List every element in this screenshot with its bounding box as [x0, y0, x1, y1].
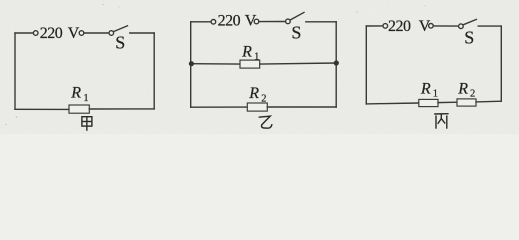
wire top-left segment: [15, 32, 33, 34]
svg-text:220 V: 220 V: [40, 25, 80, 42]
switch S blade: [290, 12, 304, 20]
wire left side: [190, 22, 192, 107]
junction dot right: [334, 60, 339, 65]
wire middle branch right: [260, 63, 337, 64]
character 丙: [434, 114, 448, 129]
svg-text:2: 2: [470, 89, 475, 100]
switch S pivot: [109, 31, 114, 36]
character 甲: [82, 117, 92, 131]
wire terminal to switch: [84, 32, 109, 34]
terminal circle left: [33, 31, 38, 36]
wire bottom-left to resistor: [191, 106, 248, 108]
terminal circle right: [429, 24, 434, 29]
svg-text:S: S: [291, 23, 301, 43]
resistor R2 box: [247, 103, 267, 111]
character 乙: [259, 116, 272, 128]
wire terminal to switch: [259, 21, 286, 23]
wire bottom-left to resistor: [15, 108, 69, 110]
switch S pivot: [459, 24, 464, 29]
wire between resistors: [438, 101, 457, 103]
junction dot left: [189, 61, 194, 66]
wire switch to top-right corner: [306, 21, 336, 23]
wire left side: [365, 26, 367, 104]
wire bottom-left to resistor R1: [366, 102, 419, 105]
svg-text:1: 1: [83, 93, 88, 104]
switch S blade: [114, 26, 128, 32]
wire right side: [153, 33, 155, 109]
resistor R1 box: [240, 60, 260, 68]
terminal circle right: [79, 31, 84, 36]
wire switch to top-right corner: [130, 32, 154, 34]
svg-text:2: 2: [261, 93, 266, 104]
faint scan specks: [5, 4, 425, 126]
wire resistor to bottom-right: [267, 106, 336, 108]
svg-text:R: R: [420, 80, 431, 97]
svg-text:R: R: [70, 85, 81, 102]
wire terminal to switch: [433, 25, 458, 27]
wire top-left segment: [366, 25, 383, 27]
svg-text:220 V: 220 V: [218, 13, 257, 30]
wire resistor to bottom-right: [89, 108, 154, 110]
wire left side: [14, 33, 16, 109]
svg-text:1: 1: [254, 52, 259, 63]
wire right side: [500, 26, 502, 101]
wire resistor R2 to bottom-right: [476, 100, 501, 103]
svg-text:R: R: [457, 80, 468, 97]
svg-text:R: R: [248, 85, 259, 102]
wire right side: [335, 22, 337, 107]
resistor R1 box: [419, 99, 438, 106]
switch S pivot: [286, 19, 291, 24]
wire middle branch left: [191, 63, 240, 65]
svg-text:1: 1: [433, 89, 438, 100]
terminal circle left: [211, 20, 216, 25]
wire switch to top-right corner: [478, 25, 501, 27]
svg-text:R: R: [241, 43, 252, 60]
terminal circle right: [254, 19, 259, 24]
resistor R1 box: [69, 105, 89, 113]
svg-text:S: S: [464, 28, 474, 48]
resistor R2 box: [457, 99, 476, 106]
terminal circle left: [383, 24, 388, 29]
wire top-left segment: [191, 21, 211, 23]
svg-text:220 V: 220 V: [388, 18, 431, 35]
paper background: [0, 0, 519, 134]
switch S blade: [463, 19, 476, 24]
svg-text:S: S: [115, 32, 125, 52]
